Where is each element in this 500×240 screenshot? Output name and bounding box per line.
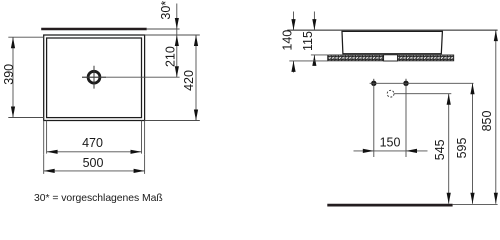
svg-text:470: 470 (82, 136, 103, 150)
svg-text:30*: 30* (159, 1, 173, 20)
svg-text:850: 850 (480, 111, 494, 132)
svg-text:115: 115 (301, 31, 315, 51)
svg-text:420: 420 (182, 70, 196, 91)
svg-text:595: 595 (455, 138, 469, 159)
svg-text:500: 500 (83, 156, 104, 170)
svg-text:210: 210 (163, 46, 177, 67)
svg-text:545: 545 (433, 139, 447, 160)
svg-text:150: 150 (380, 136, 401, 150)
svg-text:390: 390 (2, 64, 16, 85)
svg-text:30* = vorgeschlagenes Maß: 30* = vorgeschlagenes Maß (34, 193, 163, 204)
svg-text:140: 140 (280, 30, 294, 51)
